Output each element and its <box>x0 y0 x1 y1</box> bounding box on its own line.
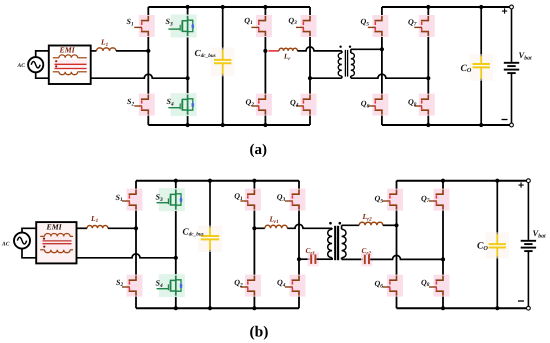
wire: secondary bottom rail (b) <box>397 307 527 309</box>
transistor Q8 (b) <box>429 275 450 297</box>
wire: bridge leg Q5/Q6 (b) <box>396 181 398 195</box>
inductor Lr1 (b) <box>265 225 287 228</box>
wire: secondary bottom to Cr2 (b) <box>342 258 363 260</box>
wire: secondary top to Q5/Q6 midpoint (a) <box>351 48 382 50</box>
wire: Q3 midpoint to transformer primary bottom (a) <box>312 77 342 79</box>
wire: secondary bottom rail (a) <box>382 124 510 126</box>
transistor Q2 (a) <box>251 94 272 116</box>
wire: bridge leg Q1/Q2 (a) <box>264 7 266 21</box>
transistor Q2 (b) <box>240 275 261 297</box>
node: C_O top (a) <box>479 5 483 9</box>
wire: AC to EMI bottom (b) <box>22 249 36 258</box>
svg-text:+: + <box>502 6 508 18</box>
inductor L1 (b) <box>87 226 108 229</box>
wire: secondary top rail (b) <box>397 180 527 182</box>
capacitor C_dc_bus (a) <box>211 48 234 77</box>
transistor S4 (b) <box>157 274 185 297</box>
transistor S4 (a) <box>168 93 196 116</box>
transistor S3 (b) <box>157 188 185 211</box>
transistor Q8 (a) <box>414 94 435 116</box>
node: Q7/Q8 midpoint (b) <box>441 257 445 261</box>
wire: EMI to L1 (a) <box>91 50 97 52</box>
node: Q1 leg top (b) <box>252 179 256 183</box>
transistor Q6 (a) <box>368 94 389 116</box>
wire: bridge leg S3/S4 (a) <box>187 7 189 21</box>
node: C_O bottom (a) <box>479 123 483 127</box>
svg-text:−: − <box>501 113 508 127</box>
transistor S3 (a) <box>168 15 196 38</box>
wire: bridge leg Q5/Q6 (a) <box>381 7 383 21</box>
transistor S1 (a) <box>134 15 155 37</box>
node: Q1/Q2 midpoint (a) <box>263 49 267 53</box>
wire: bridge leg Q7/Q8 (a) <box>427 7 429 21</box>
wire: L1 to S-leg node (b) <box>108 227 136 229</box>
terminal - (b) <box>527 306 531 310</box>
transistor Q5 (b) <box>383 189 404 211</box>
wire: Q1 midpoint to Lr1 (b) <box>256 227 265 229</box>
wire: C_dc_bus leg (b) <box>209 181 211 229</box>
wire: red segment from Q1 midpoint (a) <box>268 50 279 52</box>
node: C_dc_bus top (a) <box>221 5 225 9</box>
battery V_bat (b) <box>527 183 529 240</box>
terminal + (b) <box>527 179 531 183</box>
svg-text:AC: AC <box>1 241 10 247</box>
node: Q1 leg bottom (a) <box>263 123 267 127</box>
node: upper AC node on S1/S2 leg (a) <box>146 49 150 53</box>
node: Q7 leg bottom (a) <box>426 123 430 127</box>
EMI filter block (b) <box>36 222 76 263</box>
wire: Lr to transformer primary top with hop over Q3 leg (a) <box>297 47 341 51</box>
transistor S2 (b) <box>122 275 143 297</box>
node: Q5/Q6 midpoint (b) <box>394 223 398 227</box>
node: C_O bottom (b) <box>495 306 499 310</box>
node: Q5/Q6 midpoint (a) <box>380 47 384 51</box>
node: Q3/Q4 midpoint (a) <box>308 76 312 80</box>
wire: Cr1 to transformer primary bottom (b) <box>317 258 333 260</box>
wire: Lr1 to transformer primary top with hop over Q3 leg (b) <box>287 224 332 228</box>
transistor Q4 (b) <box>285 275 306 297</box>
wire: primary top rail (a) <box>148 6 310 8</box>
transistor Q7 (a) <box>414 15 435 37</box>
wire: bridge leg Q1/Q2 (b) <box>253 181 255 195</box>
transformer T1 (a) secondary winding <box>350 49 352 53</box>
transistor Q7 (b) <box>429 189 450 211</box>
transformer T2 (b) core <box>334 226 336 260</box>
wire: AC to EMI top (b) <box>22 228 36 232</box>
capacitor Cr1 (b) <box>308 252 320 266</box>
wire: bridge leg Q7/Q8 (b) <box>442 181 444 195</box>
wire: bridge leg S1/S2 (b) <box>135 181 137 195</box>
wire: AC to EMI top (a) <box>36 51 49 57</box>
wire: C_dc_bus leg (a) <box>222 7 224 51</box>
wire: Q3 midpoint to Cr1 (b) <box>299 258 310 260</box>
svg-text:−: − <box>518 294 525 308</box>
transistor Q1 (b) <box>240 189 261 211</box>
capacitor C_dc_bus (b) <box>198 226 222 253</box>
node: upper AC node on S1/S2 leg (b) <box>134 226 138 230</box>
inductor Lr (a) <box>279 48 297 51</box>
battery V_bat (a) <box>511 9 513 62</box>
node: Q7 leg top (a) <box>426 5 430 9</box>
svg-text:EMI: EMI <box>59 45 76 54</box>
node: S3 leg top (b) <box>174 179 178 183</box>
wire: secondary top to Lr2 (b) <box>342 224 360 226</box>
transistor Q6 (b) <box>383 275 404 297</box>
node: Q7 leg bottom (b) <box>441 306 445 310</box>
terminal + (a) <box>510 5 514 9</box>
wire: secondary bottom to Q7/Q8 midpoint with hop over Q5 leg (a) <box>351 74 429 78</box>
transistor Q3 (a) <box>296 15 317 37</box>
inductor L1 (a) <box>97 48 117 51</box>
transformer T2 (b) primary winding <box>331 228 333 229</box>
terminal - (a) <box>510 123 514 127</box>
wire: secondary top rail (a) <box>382 6 510 8</box>
transformer T2 (b) secondary winding <box>341 225 343 229</box>
wire: bridge leg S1/S2 (a) <box>147 7 149 21</box>
transistor Q1 (a) <box>251 15 272 37</box>
node: Q7/Q8 midpoint (a) <box>426 76 430 80</box>
wire: primary bottom rail (a) <box>148 124 310 126</box>
node: C_dc_bus top (b) <box>208 179 212 183</box>
wire: L1 to S-leg node (a) <box>116 50 148 52</box>
svg-text:AC: AC <box>17 63 26 69</box>
svg-text:EMI: EMI <box>46 222 63 231</box>
node: Q1 leg bottom (b) <box>252 306 256 310</box>
transistor S2 (a) <box>134 94 155 116</box>
svg-text:(b): (b) <box>250 324 269 341</box>
inductor Lr2 (b) <box>359 222 383 225</box>
wire: AC to EMI bottom (a) <box>36 72 49 78</box>
node: C_O top (b) <box>495 179 499 183</box>
wire: bridge leg Q3/Q4 (b) <box>298 181 300 195</box>
node: lower AC node on S3/S4 leg (b) <box>174 256 178 260</box>
AC source (a) <box>28 57 43 72</box>
wire: Cr2 to Q7/Q8 midpoint with hop over Q5 leg (b) <box>370 255 443 259</box>
EMI filter block (a) <box>49 45 91 84</box>
node: Q1/Q2 midpoint (b) <box>252 226 256 230</box>
capacitor C_O (a) <box>470 54 493 81</box>
transformer T1 (a) core <box>344 50 346 77</box>
svg-text:(a): (a) <box>250 142 268 158</box>
node: S3 leg bottom (a) <box>186 123 190 127</box>
capacitor Cr2 (b) <box>361 252 373 266</box>
capacitor C_O (b) <box>486 232 509 258</box>
node: S3 leg bottom (b) <box>174 306 178 310</box>
node: Q3/Q4 midpoint (b) <box>297 257 301 261</box>
node: Q7 leg top (b) <box>441 179 445 183</box>
node: lower AC node on S3/S4 leg (a) <box>186 76 190 80</box>
wire: C_O leg (b) <box>496 181 498 235</box>
AC source (b) <box>14 233 30 249</box>
node: Q1 leg top (a) <box>263 5 267 9</box>
wire: C_O leg (a) <box>480 7 482 57</box>
transistor Q4 (a) <box>296 94 317 116</box>
wire: EMI lower to S3/S4 leg with hop (b) <box>77 254 176 258</box>
transformer T1 (a) primary winding <box>341 51 343 53</box>
svg-text:+: + <box>518 180 524 192</box>
wire: EMI to L1 (b) <box>77 227 88 229</box>
node: C_dc_bus bottom (b) <box>208 306 212 310</box>
wire: EMI lower to S3/S4 leg with hop (a) <box>91 74 188 78</box>
transformer T1 (a) polarity dots <box>339 46 341 48</box>
node: C_dc_bus bottom (a) <box>221 123 225 127</box>
wire: bridge leg S3/S4 (b) <box>175 181 177 195</box>
wire: Lr2 to Q5/Q6 midpoint (b) <box>383 224 397 226</box>
transistor Q3 (b) <box>285 189 306 211</box>
transformer T2 (b) polarity dots <box>329 222 332 225</box>
wire: primary top rail (b) <box>136 180 299 182</box>
wire: bridge leg Q3/Q4 (a) <box>309 7 311 21</box>
transistor Q5 (a) <box>368 15 389 37</box>
wire: primary bottom rail (b) <box>136 307 299 309</box>
node: S3 leg top (a) <box>186 5 190 9</box>
transistor S1 (b) <box>122 189 143 211</box>
